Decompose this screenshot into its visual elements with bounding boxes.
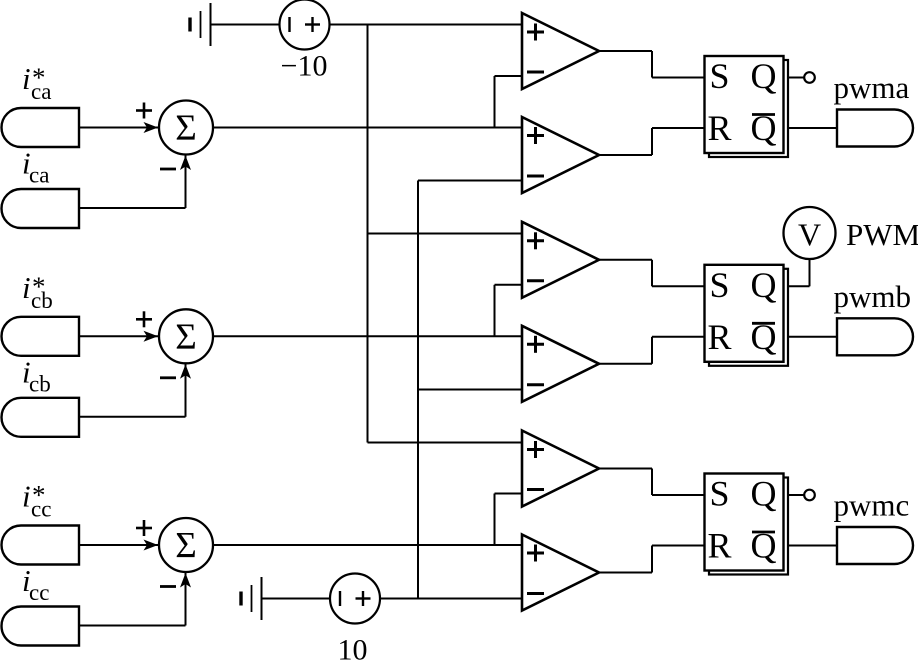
svg-text:Σ: Σ: [175, 526, 197, 567]
svg-text:ca: ca: [29, 163, 49, 188]
svg-text:pwma: pwma: [834, 70, 910, 105]
svg-text:R: R: [707, 526, 731, 566]
svg-text:pwmc: pwmc: [834, 488, 910, 523]
svg-text:pwmb: pwmb: [834, 279, 912, 314]
svg-text:ca: ca: [31, 79, 51, 104]
svg-text:Q: Q: [751, 265, 777, 305]
svg-text:Q: Q: [751, 474, 777, 514]
svg-text:V: V: [798, 217, 821, 253]
svg-text:i: i: [22, 479, 31, 514]
svg-text:cb: cb: [29, 371, 51, 396]
svg-text:Σ: Σ: [175, 317, 197, 358]
svg-text:cc: cc: [29, 580, 49, 605]
svg-text:Q: Q: [751, 56, 777, 96]
svg-text:−10: −10: [281, 50, 328, 83]
svg-text:cb: cb: [31, 288, 53, 313]
svg-text:S: S: [709, 474, 729, 514]
svg-text:PWM: PWM: [846, 217, 918, 252]
svg-text:S: S: [709, 265, 729, 305]
svg-text:Σ: Σ: [175, 108, 197, 149]
svg-text:S: S: [709, 56, 729, 96]
svg-text:R: R: [707, 317, 731, 357]
svg-text:10: 10: [338, 634, 368, 661]
svg-text:cc: cc: [31, 497, 51, 522]
svg-text:i: i: [22, 61, 31, 96]
svg-text:R: R: [707, 108, 731, 148]
svg-text:i: i: [22, 270, 31, 305]
